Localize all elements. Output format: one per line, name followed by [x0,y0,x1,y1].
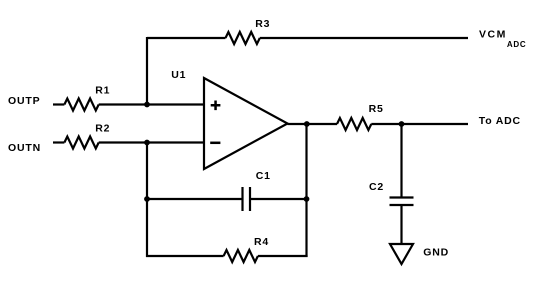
wire vertical feedback right (output node down to R4 corner) [305,124,307,257]
svg-text:R5: R5 [369,103,384,115]
wire OUTN lead [53,141,64,143]
svg-text:OUTN: OUTN [8,142,41,154]
svg-text:R3: R3 [255,18,270,30]
junction node C2 top [399,121,405,127]
junction node at - input [144,140,150,146]
wire R2 to op-amp - input [99,141,204,143]
svg-text:VCM: VCM [479,29,507,41]
svg-text:R2: R2 [95,123,110,135]
op-amp + input marker [211,100,221,110]
wire R4 row right segment [258,255,308,257]
resistor R4 [224,250,258,262]
capacitor C1 [243,187,251,211]
capacitor C2 [390,198,414,206]
wire R4 row left segment [146,255,224,257]
junction node C1 left [144,196,150,202]
wire C2 branch vertical upper [400,124,402,198]
wire C1 row left segment [147,198,243,200]
svg-text:R1: R1 [95,85,110,97]
resistor R3 [226,32,260,44]
wire C2 to ground [400,205,402,245]
wire C1 row right segment [250,198,307,200]
wire vertical feedback left (inverting node down to R4 row) [146,143,148,258]
wire R1 to op-amp + input [99,103,204,105]
op-amp - input marker [210,142,220,145]
resistor R1 [64,99,98,111]
wire top horizontal left segment (node to R3) [147,37,226,39]
svg-text:U1: U1 [171,69,186,81]
svg-text:GND: GND [423,246,449,258]
wire vertical from top wire down to noninverting input node [146,37,148,105]
junction node C1 right [304,196,310,202]
svg-text:ADC: ADC [507,40,526,49]
wire R5 to To-ADC [371,123,468,125]
op-amp U1 triangle [204,78,288,169]
junction node at + input [144,102,150,108]
wire OUTP lead [53,103,64,105]
junction node op-amp output [304,121,310,127]
svg-text:C2: C2 [369,181,384,193]
svg-text:C1: C1 [256,170,271,182]
wire top horizontal right segment (R3 to VCM) [260,37,468,39]
svg-text:OUTP: OUTP [8,95,40,107]
ground symbol [390,244,413,264]
svg-text:To ADC: To ADC [479,115,521,127]
svg-text:R4: R4 [254,236,269,248]
resistor R2 [64,137,98,149]
resistor R5 [337,118,371,130]
wire op-amp output to R5 [288,123,338,125]
